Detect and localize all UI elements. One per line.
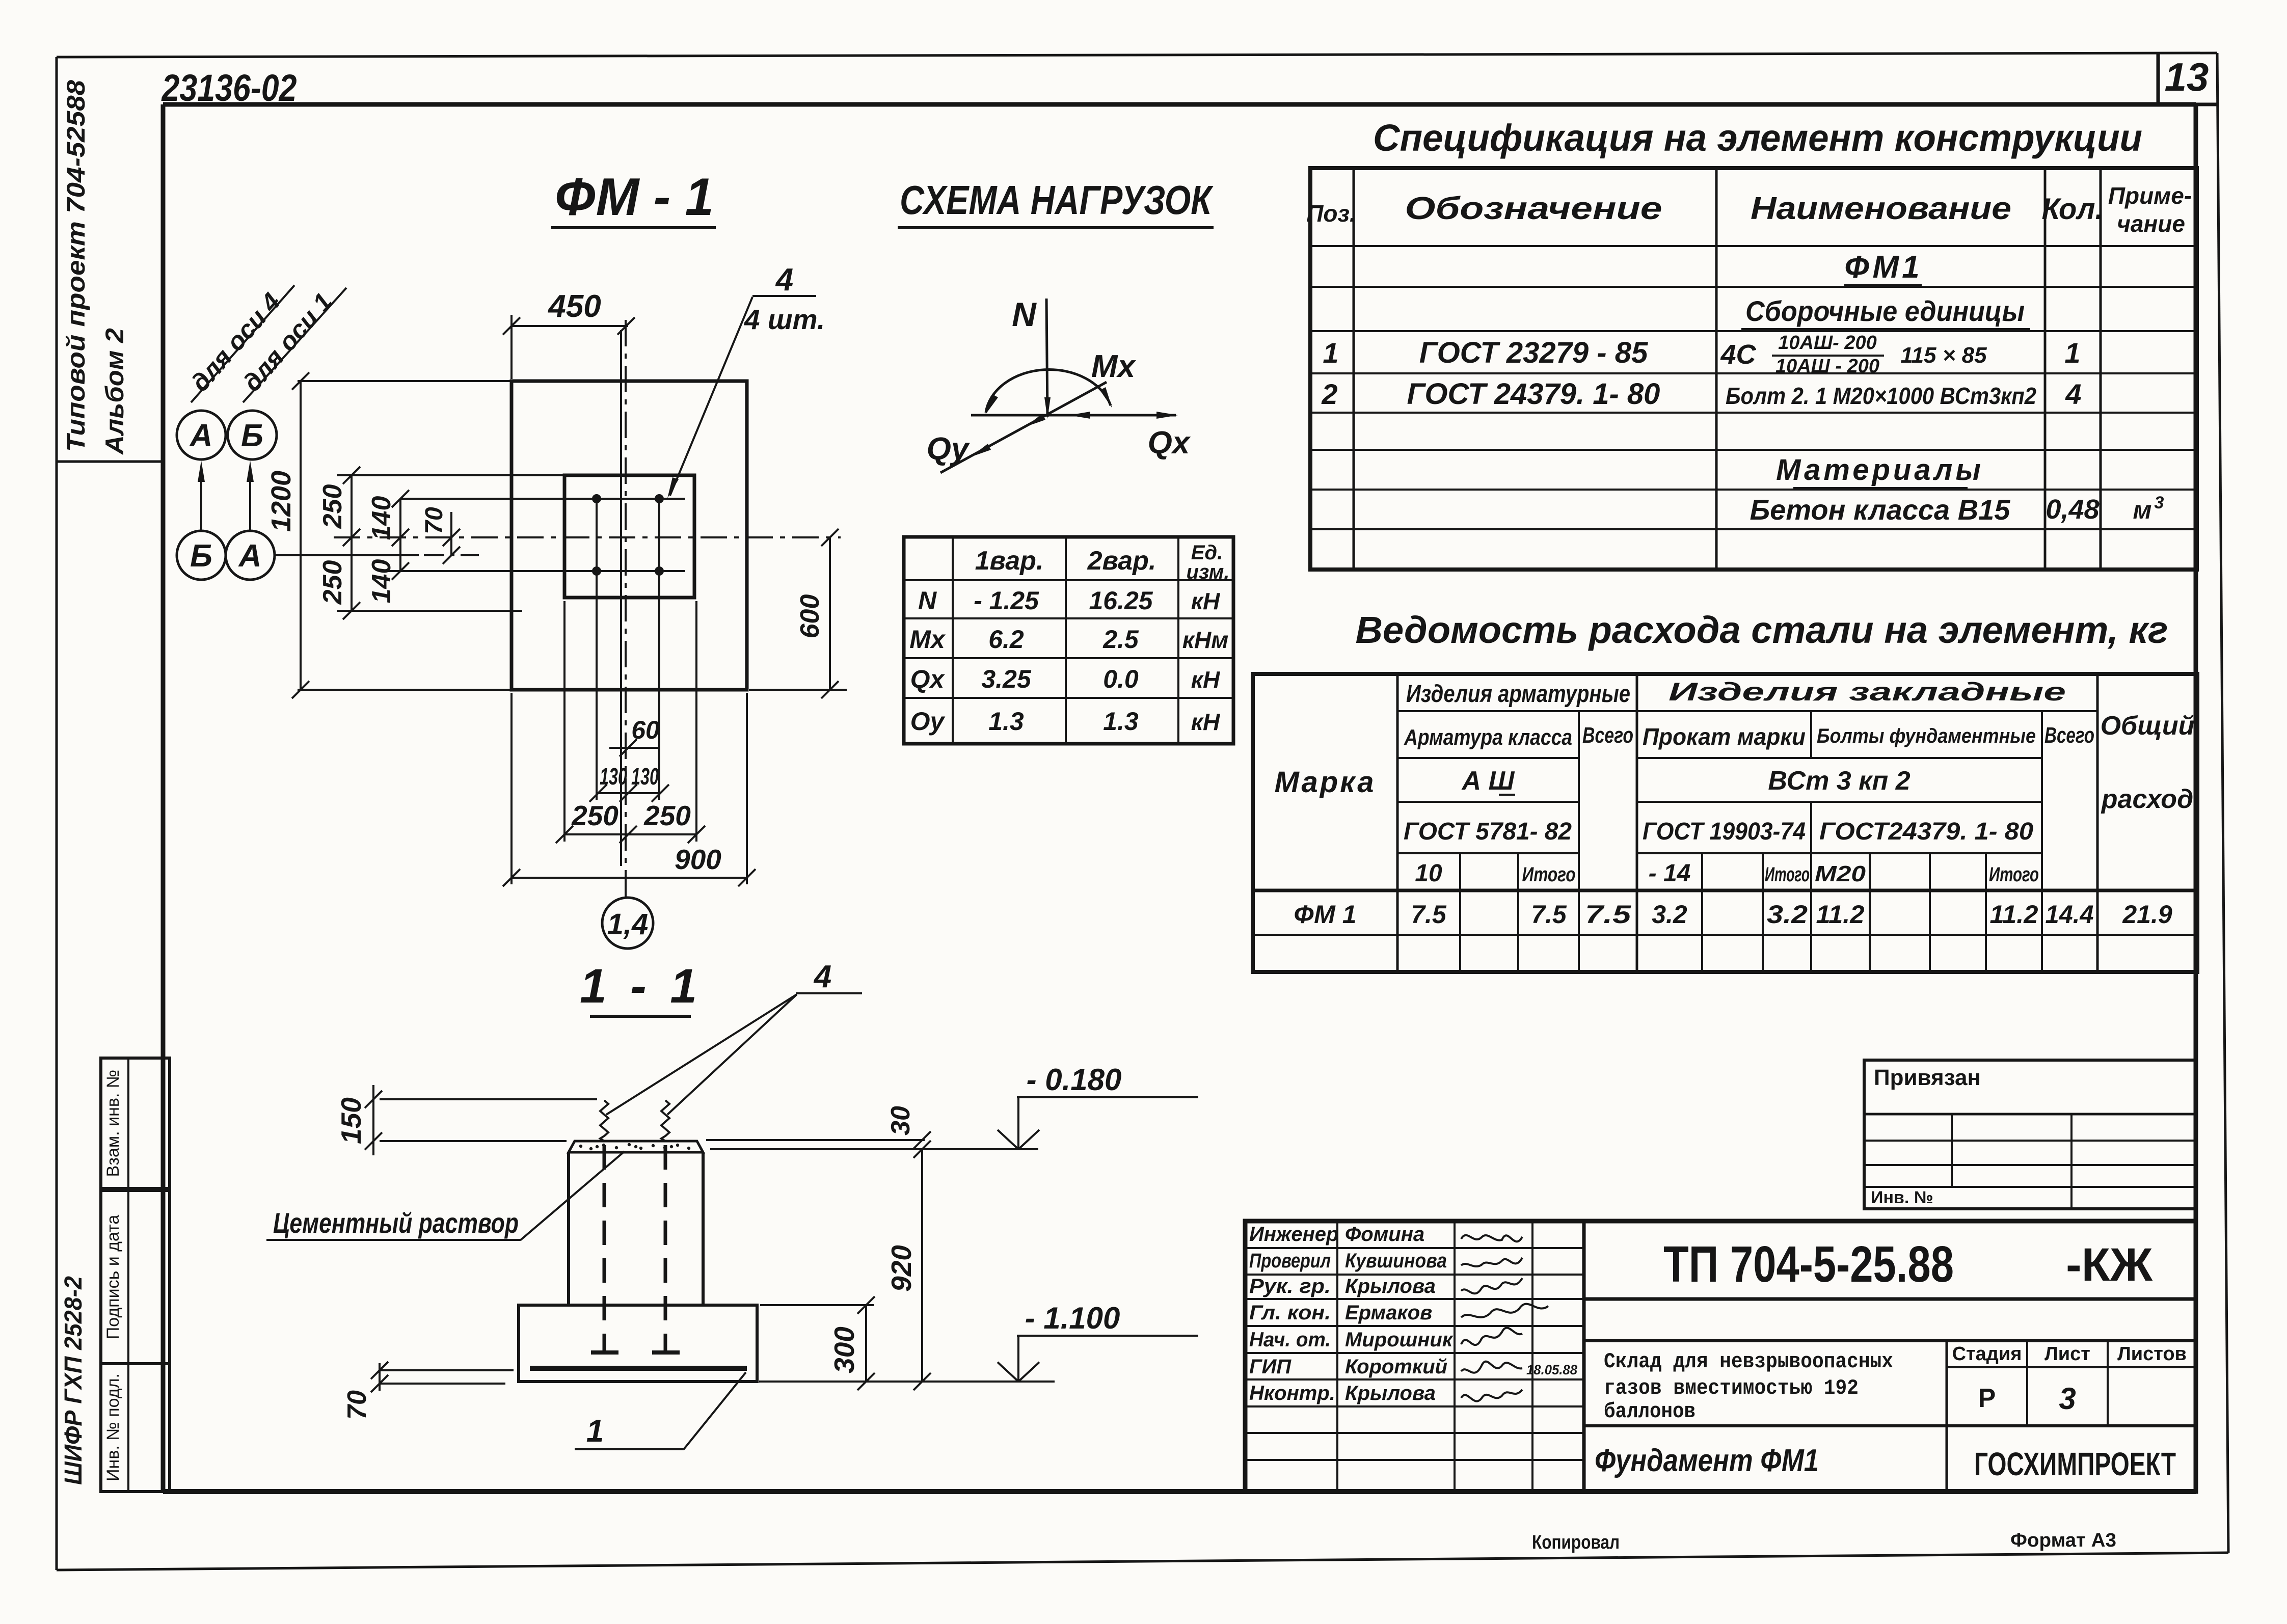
svg-text:140: 140 (367, 496, 396, 540)
svg-text:4С: 4С (1720, 339, 1756, 370)
svg-text:3.25: 3.25 (981, 665, 1032, 693)
svg-text:30: 30 (886, 1106, 916, 1135)
svg-text:Формат А3: Формат А3 (2010, 1530, 2116, 1551)
sidebar box - Взам. инв. № (101, 1058, 170, 1188)
dimension 70 (section) (342, 1362, 514, 1420)
level line -1.100 (759, 1301, 1198, 1382)
svg-text:10АШ- 200: 10АШ- 200 (1778, 332, 1877, 354)
svg-text:23136-02: 23136-02 (161, 67, 297, 109)
svg-text:Инв. №: Инв. № (1871, 1188, 1933, 1207)
title block outer border (1245, 1221, 2196, 1492)
dimension 140 lower (367, 537, 409, 603)
svg-text:Проверил: Проверил (1249, 1250, 1331, 1272)
svg-text:СХЕМА НАГРУЗОК: СХЕМА НАГРУЗОК (900, 177, 1214, 223)
svg-text:7.5: 7.5 (1585, 900, 1632, 929)
svg-text:Всего: Всего (2044, 723, 2094, 748)
title block stage-sheet header (1947, 1341, 2196, 1492)
svg-text:Нконтр.: Нконтр. (1249, 1382, 1335, 1404)
svg-text:Итого: Итого (1765, 863, 1810, 886)
svg-text:Б: Б (241, 418, 263, 453)
svg-text:кН: кН (1191, 588, 1220, 614)
svg-text:14.4: 14.4 (2046, 900, 2094, 929)
plan horizontal centerline (334, 536, 841, 538)
svg-text:Короткий: Короткий (1345, 1356, 1447, 1378)
svg-text:7.5: 7.5 (1531, 900, 1567, 929)
svg-text:Цементный раствор: Цементный раствор (273, 1207, 519, 1239)
spec table header (1306, 182, 2192, 237)
svg-text:Оу: Оу (910, 707, 946, 736)
svg-text:Крылова: Крылова (1345, 1382, 1436, 1404)
axis circle Б lower (177, 531, 226, 580)
title block signature rows text (1249, 1223, 1454, 1404)
anchor bolt dots (592, 494, 664, 576)
svg-text:ГОСТ24379. 1- 80: ГОСТ24379. 1- 80 (1819, 818, 2033, 845)
svg-text:Qх: Qх (910, 665, 946, 693)
svg-text:баллонов: баллонов (1604, 1399, 1696, 1424)
svg-text:Спецификация на элемен: Спецификация на элемент конструкции (1373, 117, 2142, 159)
dimension 920 (885, 1149, 931, 1390)
svg-text:3.2: 3.2 (1767, 900, 1808, 929)
svg-text:N: N (918, 586, 937, 615)
stamp table Привязан (1864, 1060, 2196, 1209)
bolt column extension lines (512, 503, 747, 884)
svg-text:Всего: Всего (1582, 723, 1633, 748)
svg-text:изм.: изм. (1186, 561, 1229, 583)
label для оси 4 (185, 285, 294, 402)
svg-text:Рук. гр.: Рук. гр. (1249, 1275, 1331, 1297)
steel table headers (1274, 678, 2194, 887)
svg-text:Стадия: Стадия (1952, 1343, 2022, 1365)
svg-text:21.9: 21.9 (2122, 900, 2172, 929)
svg-text:Б: Б (190, 538, 212, 574)
svg-text:1: 1 (2064, 337, 2080, 369)
dimension 1200 (266, 372, 515, 698)
svg-text:газов вместимостью 192: газов вместимостью 192 (1604, 1376, 1859, 1400)
page number box 13 (2158, 54, 2217, 104)
svg-text:1: 1 (586, 1414, 604, 1449)
svg-text:Приме-: Приме- (2108, 182, 2192, 209)
svg-text:1 - 1: 1 - 1 (580, 959, 702, 1013)
svg-text:Гл. кон.: Гл. кон. (1249, 1302, 1331, 1324)
svg-text:Фундамент ФМ1: Фундамент ФМ1 (1595, 1443, 1819, 1478)
spec row Бетон класса В15 (1750, 493, 2164, 526)
svg-text:18.05.88: 18.05.88 (1526, 1362, 1577, 1377)
svg-text:Кол.: Кол. (2041, 193, 2103, 226)
dimension 150 (335, 1085, 597, 1155)
svg-text:ГОСТ 24379. 1- 80: ГОСТ 24379. 1- 80 (1407, 377, 1660, 411)
section pedestal (569, 1152, 703, 1305)
dimension 250 250 bottom (556, 800, 705, 843)
svg-text:6.2: 6.2 (988, 625, 1024, 654)
steel table data row ФМ1 (1294, 900, 2172, 929)
svg-text:ТП 704-5-25.88: ТП 704-5-25.88 (1663, 1236, 1954, 1293)
dimension 600 (749, 529, 847, 698)
title block signature grid (1245, 1221, 1584, 1492)
spec table grid (1310, 168, 2197, 570)
loads table rows (909, 586, 1228, 736)
signatures (scribbles) (1461, 1235, 1577, 1401)
svg-text:0,48: 0,48 (2046, 494, 2099, 525)
dimension 900 (503, 844, 756, 886)
callout 4 with leaders (section) (606, 959, 862, 1115)
svg-text:1.3: 1.3 (1103, 707, 1139, 736)
callout 4 with leader (plan) (667, 262, 825, 498)
title block object name Склад для невзрывоопасных газов (1584, 1341, 2196, 1424)
svg-text:16.25: 16.25 (1089, 586, 1153, 615)
svg-text:М20: М20 (1815, 861, 1866, 886)
spec row Сборочные единицы (1741, 295, 2030, 329)
svg-text:ГОСХИМПРОЕКТ: ГОСХИМПРОЕКТ (1974, 1446, 2176, 1482)
plan outer footing square 900x1200 (512, 381, 747, 690)
dimension 140 upper (367, 490, 409, 546)
svg-text:расход: расход (2101, 784, 2193, 814)
svg-text:Марка: Марка (1274, 766, 1376, 799)
section footing (519, 1305, 757, 1382)
title СХЕМА НАГРУЗОК (898, 177, 1214, 228)
svg-text:2вар.: 2вар. (1087, 546, 1156, 576)
svg-text:10АШ - 200: 10АШ - 200 (1775, 356, 1879, 377)
svg-text:250: 250 (571, 800, 618, 831)
svg-text:Изделия закладные: Изделия закладные (1669, 678, 2066, 706)
dimension 60 (609, 716, 660, 756)
svg-text:70: 70 (421, 507, 448, 534)
title block drawing name Фундамент ФМ1 (1584, 1426, 2196, 1478)
sidebar box - Подпись и дата (101, 1190, 170, 1364)
svg-text:Инженер: Инженер (1249, 1223, 1338, 1246)
loads table grid (904, 537, 1233, 744)
svg-text:1: 1 (1323, 337, 1338, 369)
reinforcement mesh item 1 (530, 1366, 747, 1371)
title block document number ТП 704-5-25.88 (1584, 1236, 2196, 1299)
svg-text:7.5: 7.5 (1411, 900, 1447, 929)
svg-text:4: 4 (775, 262, 793, 297)
svg-text:11.2: 11.2 (1816, 900, 1865, 929)
spec row ФМ1 (1844, 250, 1923, 285)
label для оси 1 (237, 287, 346, 402)
svg-text:ГИП: ГИП (1249, 1356, 1292, 1378)
svg-text:N: N (1012, 295, 1037, 333)
svg-text:Мирошник: Мирошник (1345, 1329, 1454, 1351)
svg-text:Общий: Общий (2101, 711, 2195, 741)
axis line from А (275, 554, 479, 556)
svg-text:Болты фундаментные: Болты фундаментные (1817, 725, 2036, 747)
svg-text:Инв. № подл.: Инв. № подл. (103, 1373, 123, 1481)
svg-text:Типовой проект 704-52588: Типовой проект 704-52588 (62, 80, 90, 452)
svg-text:10: 10 (1415, 860, 1442, 887)
sidebar box - Инв. № подл. (101, 1364, 170, 1492)
anchor bolt left (dashed) (591, 1100, 618, 1352)
svg-text:3.2: 3.2 (1652, 900, 1687, 929)
svg-text:130: 130 (631, 763, 659, 790)
svg-text:Листов: Листов (2117, 1343, 2187, 1365)
title ФМ-1 (551, 168, 716, 228)
svg-text:Альбом 2: Альбом 2 (100, 328, 129, 455)
svg-text:1200: 1200 (266, 471, 297, 532)
svg-text:- 1.100: - 1.100 (1025, 1301, 1120, 1335)
bolt row line upper (400, 498, 685, 500)
svg-text:Сборочные единицы: Сборочные единицы (1745, 295, 2025, 327)
load scheme force diagram (927, 295, 1191, 473)
plan vertical centerline (625, 320, 627, 898)
svg-text:Болт 2. 1 М20×1000 ВСт3кп2: Болт 2. 1 М20×1000 ВСт3кп2 (1726, 383, 2036, 409)
svg-text:- 1.25: - 1.25 (974, 586, 1039, 615)
svg-text:2.5: 2.5 (1102, 625, 1139, 654)
svg-text:3: 3 (2155, 493, 2164, 512)
svg-text:130: 130 (600, 763, 627, 790)
svg-text:Qу: Qу (927, 431, 971, 467)
svg-text:А: А (238, 538, 262, 574)
svg-text:Фомина: Фомина (1345, 1223, 1424, 1246)
svg-text:ШИФР ГХП 2528-2: ШИФР ГХП 2528-2 (60, 1276, 87, 1485)
svg-text:ФМ1: ФМ1 (1844, 250, 1922, 285)
svg-text:250: 250 (318, 484, 347, 529)
dimension 70 (421, 507, 460, 564)
svg-text:150: 150 (335, 1097, 367, 1144)
spec row 1 ГОСТ 23279-85 (1323, 332, 2080, 377)
svg-text:450: 450 (547, 289, 601, 324)
svg-text:1.3: 1.3 (988, 707, 1024, 736)
svg-text:кН: кН (1191, 666, 1220, 693)
axis circle Б upper (228, 411, 277, 459)
bolt row line lower (386, 570, 685, 572)
svg-text:13: 13 (2165, 55, 2209, 99)
svg-text:ВСт 3 кп 2: ВСт 3 кп 2 (1768, 766, 1910, 796)
svg-text:Крылова: Крылова (1345, 1275, 1436, 1297)
svg-text:Ведомость расхода стали: Ведомость расхода стали на элемент, кг (1356, 609, 2168, 651)
svg-text:Итого: Итого (1522, 863, 1576, 886)
axis circle А upper (177, 411, 226, 459)
dimension 130 130 (589, 763, 669, 802)
anchor bolt right (dashed) (652, 1100, 680, 1352)
svg-text:чание: чание (2117, 210, 2185, 237)
svg-text:4 шт.: 4 шт. (744, 304, 825, 335)
svg-text:Ермаков: Ермаков (1345, 1302, 1432, 1324)
svg-text:11.2: 11.2 (1990, 900, 2038, 929)
spec row Материалы (1776, 453, 1984, 488)
steel table grid (1253, 674, 2197, 972)
svg-text:70: 70 (342, 1390, 372, 1420)
svg-text:300: 300 (828, 1327, 860, 1373)
svg-text:1,4: 1,4 (607, 908, 649, 941)
section title 1-1 (580, 959, 702, 1016)
svg-text:Привязан: Привязан (1874, 1065, 1981, 1090)
svg-text:920: 920 (885, 1245, 917, 1292)
svg-text:Взам. инв. №: Взам. инв. № (103, 1070, 123, 1177)
plan section cut line 1-1 (620, 330, 622, 866)
svg-text:Прокат марки: Прокат марки (1643, 723, 1806, 750)
svg-text:3: 3 (2059, 1382, 2076, 1416)
svg-text:- 14: - 14 (1649, 860, 1691, 887)
svg-text:Материалы: Материалы (1776, 453, 1984, 486)
svg-text:Кувшинова: Кувшинова (1345, 1250, 1447, 1272)
dimension 300 (760, 1296, 875, 1390)
dimension 250 upper (318, 467, 566, 546)
svg-text:Склад для невзрывоопасных: Склад для невзрывоопасных (1604, 1349, 1893, 1374)
cement mortar cap (569, 1141, 703, 1152)
svg-text:-КЖ: -КЖ (2066, 1239, 2153, 1291)
svg-text:2: 2 (1321, 378, 1337, 410)
callout 1 with leader (section) (575, 1372, 746, 1449)
svg-text:Нач. от.: Нач. от. (1249, 1329, 1331, 1351)
svg-text:Изделия арматурные: Изделия арматурные (1406, 681, 1630, 708)
svg-text:1вар.: 1вар. (975, 546, 1044, 576)
svg-text:Наименование: Наименование (1751, 191, 2011, 226)
level line -0.180 (710, 1063, 1198, 1149)
svg-text:Копировал: Копировал (1532, 1532, 1620, 1553)
svg-text:Итого: Итого (1989, 863, 2039, 886)
svg-text:Подпись и дата: Подпись и дата (103, 1215, 123, 1340)
dimension 450 (503, 289, 635, 379)
axis arrows (198, 461, 254, 530)
svg-text:140: 140 (367, 559, 396, 604)
svg-text:Qх: Qх (1148, 425, 1191, 461)
svg-text:А Ш: А Ш (1461, 766, 1515, 796)
svg-text:- 0.180: - 0.180 (1027, 1063, 1122, 1097)
svg-text:Поз.: Поз. (1306, 200, 1356, 227)
drawing frame border (163, 104, 2196, 1492)
svg-text:Лист: Лист (2044, 1343, 2090, 1365)
svg-text:ГОСТ 5781- 82: ГОСТ 5781- 82 (1404, 818, 1572, 845)
axis circle А lower (226, 531, 275, 580)
sidebar top box divider (57, 461, 163, 463)
plan inner pedestal square (564, 475, 694, 598)
svg-text:ФМ - 1: ФМ - 1 (555, 168, 714, 227)
svg-text:250: 250 (643, 800, 691, 831)
svg-text:кН: кН (1191, 709, 1220, 735)
svg-text:Р: Р (1978, 1384, 1996, 1413)
svg-text:м: м (2133, 496, 2152, 524)
dimension 30 (706, 1106, 931, 1158)
dimension 250 lower (318, 537, 522, 619)
svg-text:ГОСТ 19903-74: ГОСТ 19903-74 (1643, 818, 1806, 845)
svg-text:Мх: Мх (909, 625, 946, 654)
spec row 2 ГОСТ 24379.1-80 (1321, 377, 2081, 411)
svg-text:4: 4 (813, 959, 831, 994)
svg-text:ФМ 1: ФМ 1 (1294, 900, 1357, 929)
svg-text:900: 900 (675, 844, 721, 875)
svg-text:Мх: Мх (1091, 349, 1137, 384)
svg-text:ГОСТ 23279 - 85: ГОСТ 23279 - 85 (1419, 336, 1648, 369)
section mark circle 1,4 (602, 898, 653, 949)
svg-text:600: 600 (795, 594, 825, 639)
svg-text:0.0: 0.0 (1103, 665, 1139, 693)
svg-text:250: 250 (318, 560, 347, 605)
svg-text:Арматура класса: Арматура класса (1404, 725, 1572, 750)
svg-text:Обозначение: Обозначение (1405, 191, 1662, 226)
svg-text:кНм: кНм (1182, 627, 1229, 653)
svg-text:Бетон класса В15: Бетон класса В15 (1750, 494, 2011, 526)
label Цементный раствор with leader (266, 1151, 625, 1240)
svg-text:4: 4 (2065, 378, 2081, 410)
svg-text:А: А (189, 418, 213, 453)
svg-text:115 × 85: 115 × 85 (1900, 343, 1987, 368)
loads table header (975, 542, 1230, 583)
